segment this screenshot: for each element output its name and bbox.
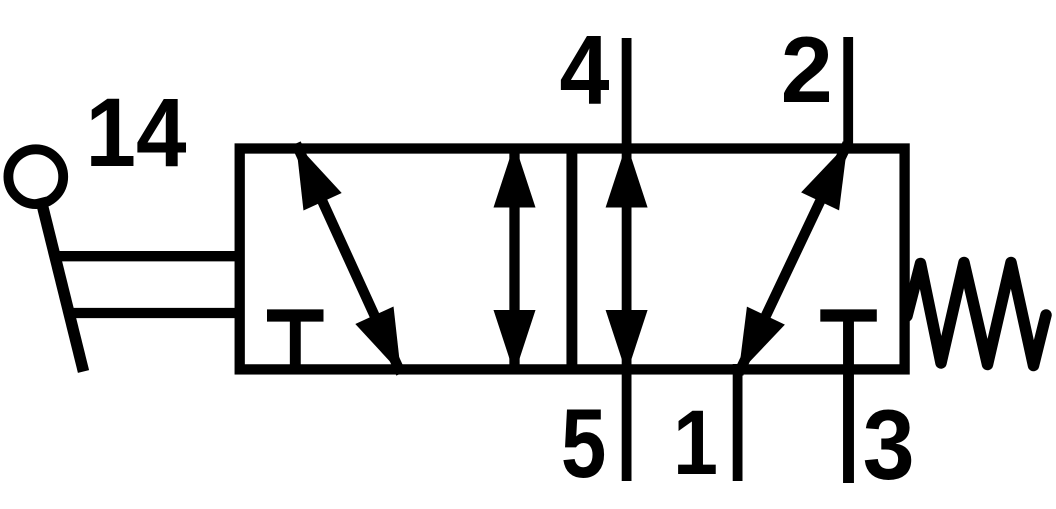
flow path arrow 1-2 (right box diagonal, double headed) <box>739 144 848 374</box>
lever knob circle <box>8 149 63 204</box>
port line 4-5 through valve (also shaft of right box vertical arrow) <box>622 38 632 481</box>
push rod lower line <box>66 308 240 318</box>
valve body (two-position frame) <box>240 149 905 370</box>
port line 1 <box>733 364 743 481</box>
svg-text:14: 14 <box>86 78 187 187</box>
blocked port symbol (left box, port 5 seat) <box>267 316 324 372</box>
lever arm <box>41 198 84 372</box>
port line 2 <box>843 37 853 153</box>
svg-text:2: 2 <box>781 17 833 122</box>
svg-text:1: 1 <box>673 392 718 494</box>
svg-text:3: 3 <box>863 389 915 500</box>
blocked port symbol (right box, port 3 seat) <box>820 309 877 321</box>
svg-text:4: 4 <box>560 15 610 125</box>
svg-text:5: 5 <box>561 388 607 498</box>
flow path arrow 2-3 (left box vertical, double headed) <box>494 144 536 375</box>
return spring <box>907 263 1046 366</box>
flow path arrow 1-4 (left box diagonal, double headed) <box>296 144 401 374</box>
position divider <box>566 144 577 374</box>
flow path arrow 4-5 heads (right box vertical, double headed) <box>606 144 648 375</box>
push rod upper line <box>52 251 240 261</box>
port line 3 (stem of blocked symbol continuing below body) <box>843 316 854 484</box>
